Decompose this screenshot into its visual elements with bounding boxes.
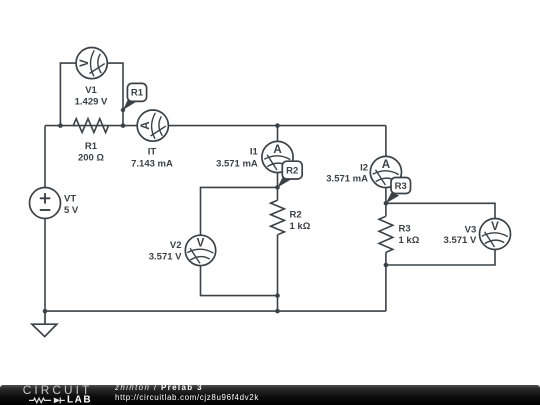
svg-text:3.571 mA: 3.571 mA <box>216 159 258 170</box>
svg-text:LAB: LAB <box>67 394 92 405</box>
svg-text:3.571 V: 3.571 V <box>149 252 182 263</box>
node flag R2 <box>278 161 303 187</box>
svg-text:V1: V1 <box>85 85 97 96</box>
svg-text:IT: IT <box>148 147 157 158</box>
wire left rail <box>44 126 46 312</box>
voltmeter V2 <box>149 235 216 265</box>
wire right branch vertical <box>385 126 387 312</box>
voltmeter V3 <box>444 219 511 250</box>
svg-text:R2: R2 <box>290 209 302 220</box>
wire R2 branch <box>277 187 279 311</box>
resistor R2 <box>271 200 311 235</box>
wire top rail <box>45 125 386 127</box>
footer banner <box>0 385 540 405</box>
svg-text:V: V <box>78 59 91 67</box>
svg-text:A: A <box>273 143 282 156</box>
svg-text:R3: R3 <box>399 223 411 234</box>
ground <box>32 311 57 337</box>
svg-text:R2: R2 <box>286 165 298 176</box>
svg-text:1 kΩ: 1 kΩ <box>290 221 311 232</box>
wire V3 loop <box>386 203 495 265</box>
svg-text:R1: R1 <box>85 141 98 152</box>
wire V1 loop <box>60 63 123 126</box>
svg-text:I2: I2 <box>360 163 368 174</box>
node flag R3 <box>386 178 411 204</box>
svg-text:V: V <box>197 237 205 250</box>
ammeter I1 <box>216 141 293 172</box>
svg-text:R3: R3 <box>395 181 407 192</box>
svg-text:V: V <box>491 220 499 233</box>
svg-text:R1: R1 <box>131 88 144 99</box>
node flag R1 <box>123 83 147 110</box>
resistor R1 <box>73 119 108 164</box>
wire bottom rail <box>45 310 386 312</box>
voltmeter V1 <box>75 48 108 108</box>
svg-text:5 V: 5 V <box>64 205 79 216</box>
ammeter I2 <box>326 156 401 187</box>
svg-text:A: A <box>382 158 391 171</box>
svg-text:I1: I1 <box>250 147 259 158</box>
svg-text:V3: V3 <box>465 225 477 236</box>
resistor R3 <box>379 216 420 252</box>
voltage source VT <box>30 188 79 219</box>
svg-text:3.571 mA: 3.571 mA <box>326 173 368 184</box>
svg-text:1 kΩ: 1 kΩ <box>399 235 420 246</box>
svg-text:A: A <box>139 121 152 130</box>
svg-text:3.571 V: 3.571 V <box>444 235 477 246</box>
ammeter IT <box>131 110 173 170</box>
svg-text:200 Ω: 200 Ω <box>78 152 104 163</box>
svg-text:7.143 mA: 7.143 mA <box>131 159 173 170</box>
svg-text:V2: V2 <box>170 240 182 251</box>
wire V2 loop <box>201 187 278 295</box>
svg-text:VT: VT <box>64 193 76 204</box>
wire I1 branch <box>277 126 279 188</box>
svg-text:1.429 V: 1.429 V <box>75 96 108 107</box>
